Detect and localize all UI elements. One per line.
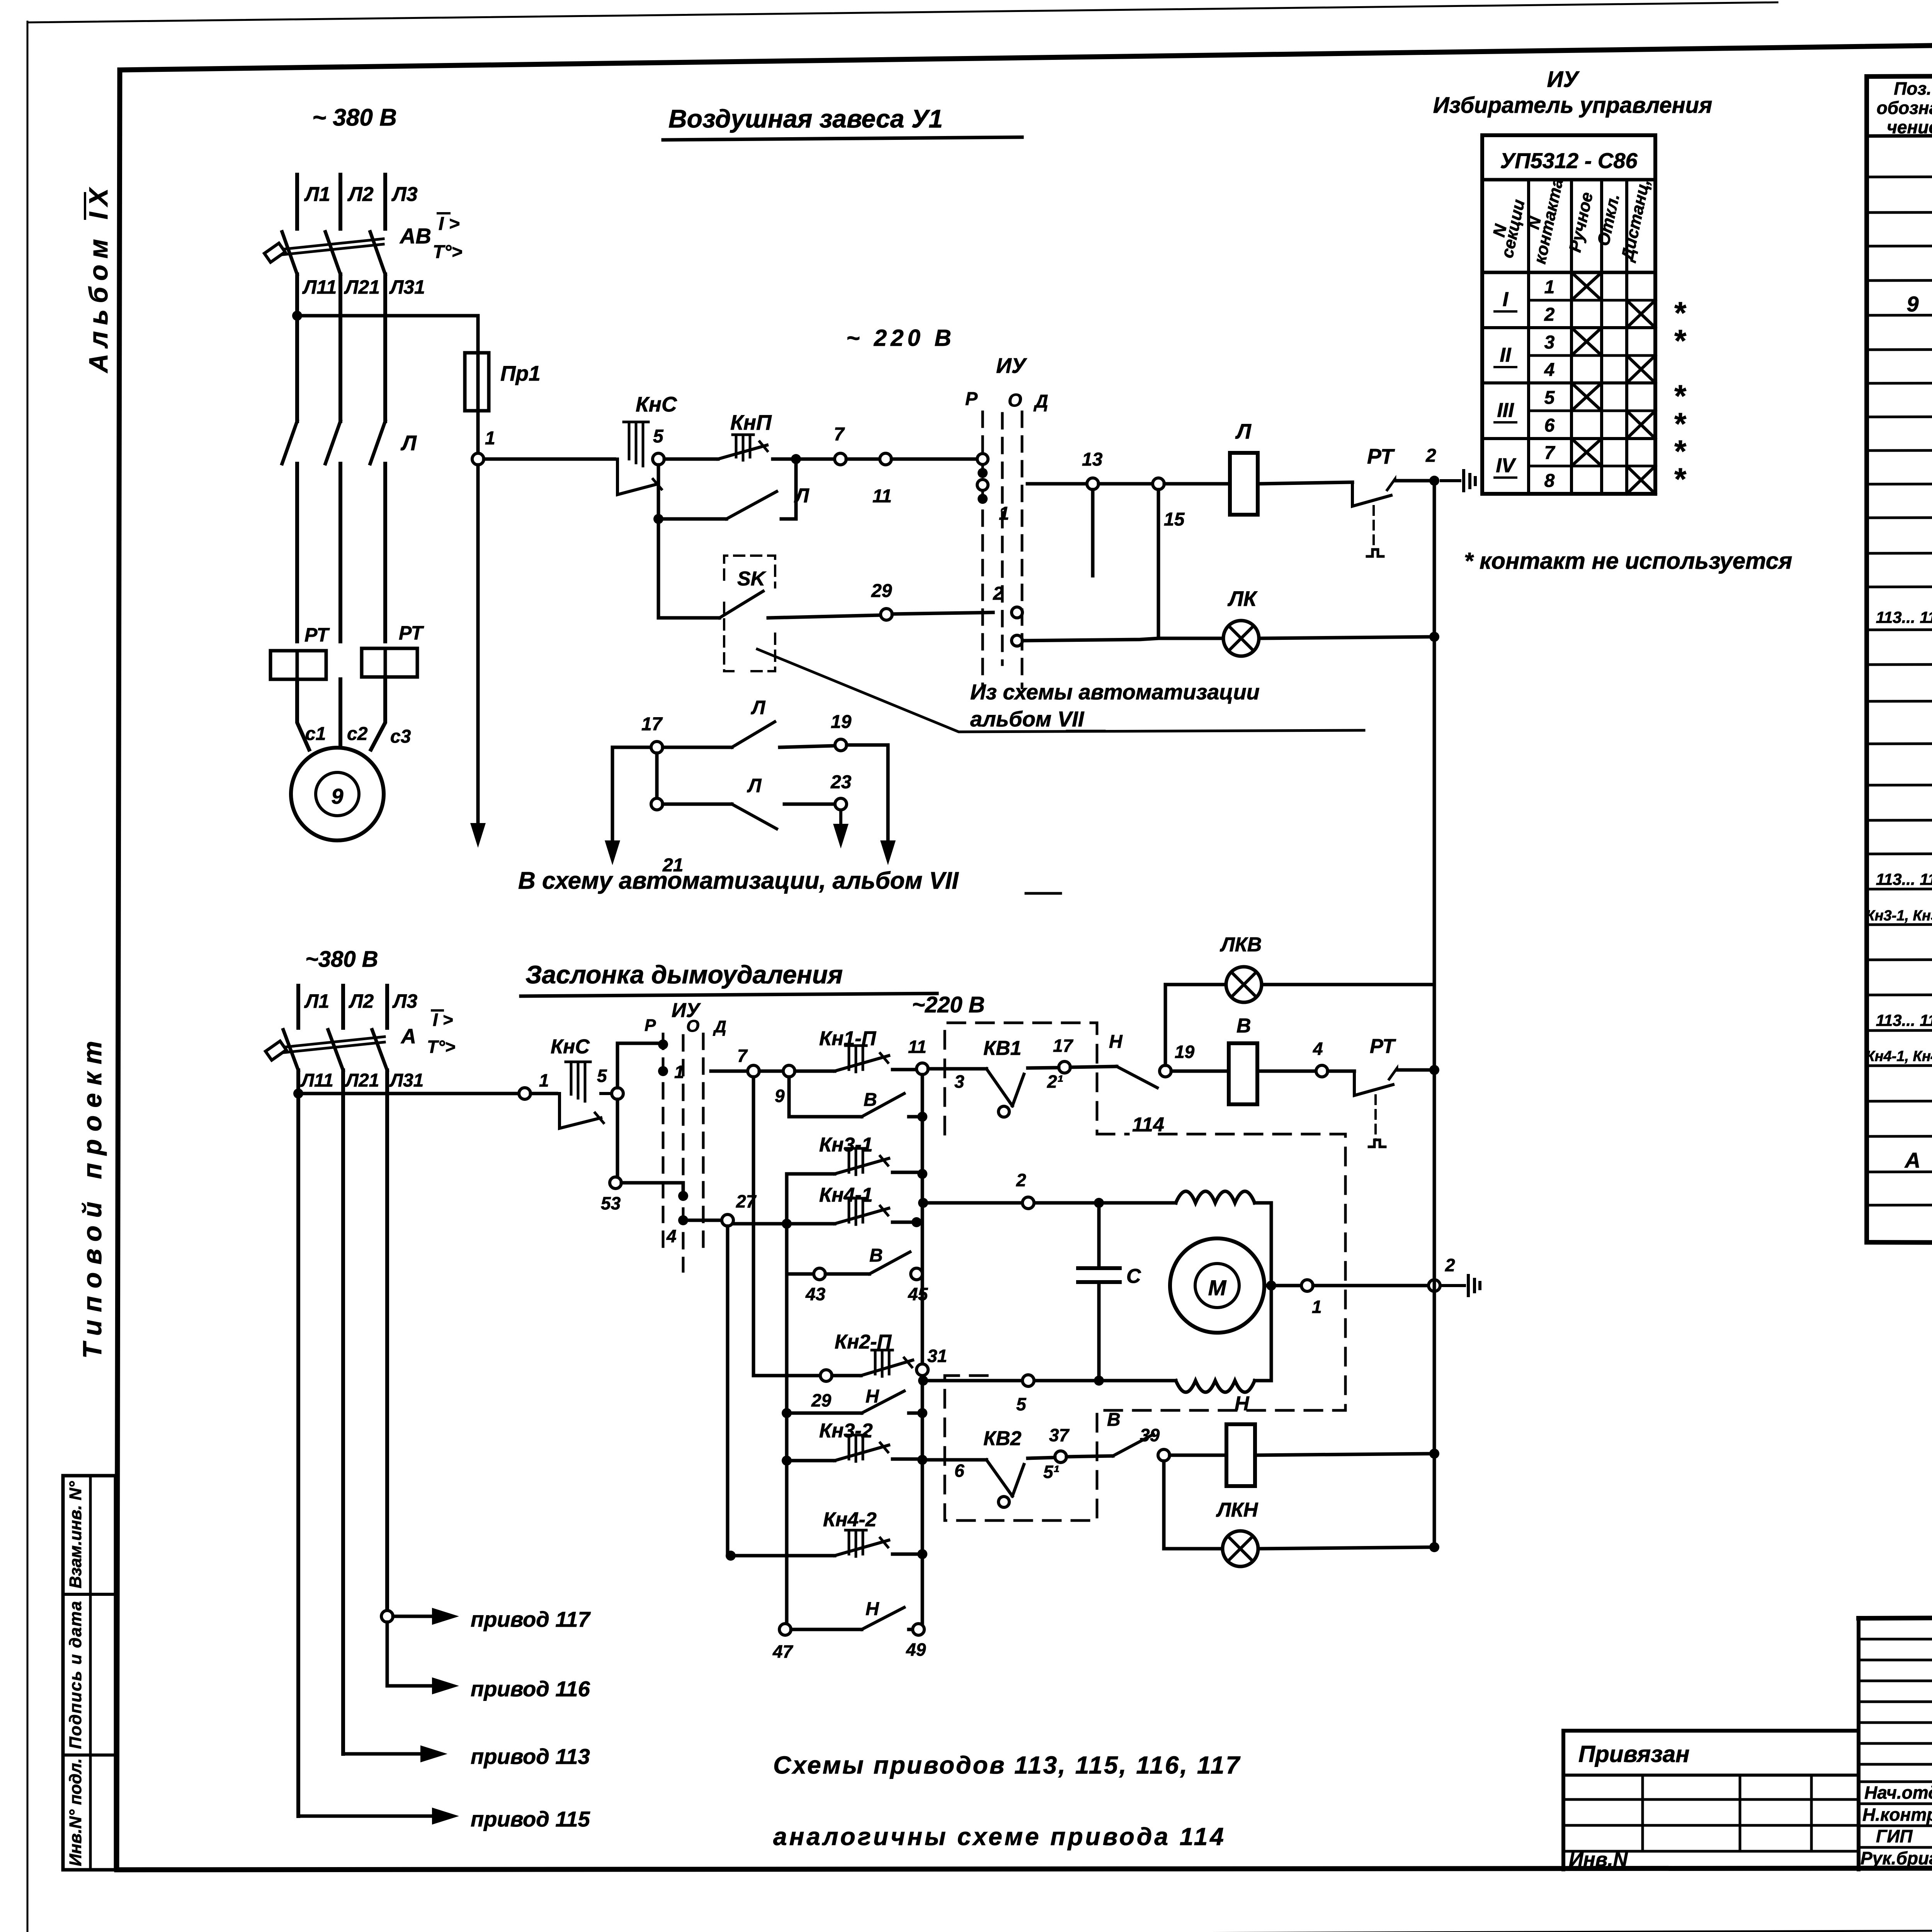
selector row line 1 partial (1529, 299, 1655, 302)
svg-text:1: 1 (1312, 1297, 1322, 1317)
svg-text:В: В (864, 1090, 877, 1110)
svg-text:13: 13 (1082, 449, 1103, 470)
signature table left line (1857, 1618, 1861, 1869)
main rung IU to node7 (711, 1070, 748, 1073)
breaker A blade 1 c2 (283, 1030, 298, 1070)
node 11 c2 (917, 1063, 928, 1075)
rail rows5-10 left (785, 1274, 789, 1629)
wire node13 to node15 (1099, 482, 1153, 486)
junction dot L1 c2 (293, 1088, 303, 1099)
node 17 c2 (1059, 1061, 1070, 1073)
svg-text:29: 29 (811, 1390, 832, 1410)
parts table row line 26 (1867, 1064, 1932, 1066)
selector table outer box (1482, 135, 1655, 494)
svg-text:РТ: РТ (399, 622, 424, 644)
button Kn1-P (795, 1070, 835, 1073)
svg-text:КнС: КнС (636, 392, 677, 416)
contactor L blade 1 (282, 421, 297, 464)
overline I c2 (432, 1009, 443, 1012)
wire H coil to rail (1255, 1454, 1434, 1455)
LKV rung right (1262, 983, 1434, 986)
selector X mark row 5 (1571, 383, 1602, 411)
wire rail to KV2 (922, 1458, 981, 1462)
row8 dot left (782, 1456, 792, 1466)
wire node7 node9 (759, 1070, 783, 1073)
selector X mark row 3 (1571, 328, 1602, 355)
parts table row line 19 (1867, 819, 1932, 820)
button Kn2-P (832, 1374, 861, 1378)
signature table row 9 (1859, 1803, 1932, 1805)
svg-text:5: 5 (653, 426, 664, 447)
node 27 (722, 1214, 733, 1226)
SK wire to node29 (768, 615, 881, 618)
button Kn4-1 (733, 1222, 835, 1226)
rail node11 down (921, 1075, 924, 1629)
svg-text:А: А (1904, 1148, 1920, 1172)
svg-text:обозна-: обозна- (1877, 98, 1932, 118)
wire node5 down to 53 (616, 1099, 619, 1177)
svg-text:2: 2 (1425, 446, 1436, 466)
svg-text:Избиратель управления: Избиратель управления (1433, 93, 1713, 118)
node 43 (814, 1268, 825, 1280)
svg-text:2: 2 (1544, 304, 1555, 325)
IU contact2 c1 lower (1012, 635, 1022, 646)
wire KV2 to 37 (1012, 1464, 1024, 1496)
arrowhead 23 down (839, 810, 842, 827)
node 45 (911, 1268, 922, 1280)
wire blade to 19 (780, 746, 835, 747)
dashed box KV1 (945, 1023, 1097, 1134)
svg-text:47: 47 (772, 1641, 794, 1662)
selfhold contact right (781, 459, 796, 519)
wire node1 down arrow (476, 465, 480, 823)
node 17 (651, 742, 663, 753)
svg-text:АВ: АВ (399, 224, 431, 248)
svg-text:Д: Д (1033, 391, 1048, 412)
wire c1 to motor (297, 679, 309, 750)
wire KnS to node5 c2 (601, 1092, 612, 1095)
selector header bottom line (1482, 271, 1655, 274)
svg-text:7: 7 (834, 424, 845, 445)
breaker AB crossbar (279, 239, 383, 255)
parts table row line 18 (1867, 784, 1932, 785)
svg-text:Н.контр.: Н.контр. (1862, 1804, 1932, 1825)
capacitor C vertical wire top (1097, 1203, 1101, 1268)
svg-text:В схему автоматизации,: В схему автоматизации, альбом VII (518, 867, 959, 894)
selector column line 3 (1600, 180, 1603, 494)
wire node11 right (928, 1067, 981, 1071)
svg-text:31: 31 (927, 1346, 947, 1366)
node 31 c2 (917, 1364, 928, 1376)
svg-text:Л: Л (1235, 419, 1252, 443)
rung to rail dot c2 (1429, 1065, 1439, 1075)
svg-text:Кн2-П: Кн2-П (835, 1331, 892, 1353)
thermal element RT1 box (270, 651, 326, 679)
selector X mark row 2 (1627, 300, 1655, 328)
svg-text:РТ: РТ (1370, 1035, 1396, 1058)
svg-text:11: 11 (872, 486, 892, 507)
parts table row line 4 (1867, 279, 1932, 281)
wire17 top (612, 746, 651, 749)
svg-text:2: 2 (1016, 1170, 1026, 1190)
svg-text:Пр1: Пр1 (500, 361, 541, 385)
svg-text:привод 117: привод 117 (471, 1607, 591, 1631)
wire 39 to H coil (1170, 1454, 1226, 1457)
overline I (438, 212, 449, 214)
motor top winding (1176, 1191, 1255, 1203)
svg-text:4: 4 (1313, 1039, 1323, 1059)
lamp LKV cross (1231, 972, 1256, 997)
signature table row 3 (1859, 1680, 1932, 1682)
privod 115 arrow (298, 1815, 433, 1818)
svg-text:Л21: Л21 (344, 276, 380, 298)
svg-text:37: 37 (1049, 1425, 1070, 1445)
svg-text:53: 53 (601, 1193, 621, 1213)
arrowhead 17 left (605, 840, 620, 865)
svg-text:Нач.отд.: Нач.отд. (1864, 1782, 1932, 1803)
privyazan row 3 (1563, 1824, 1859, 1827)
H coil rect (1226, 1424, 1255, 1486)
inner frame bottom (117, 1867, 1932, 1870)
svg-text:Л2: Л2 (349, 990, 374, 1012)
row2 B contact (789, 1115, 862, 1119)
IU c2 dashed O (682, 1036, 685, 1271)
svg-text:Л31: Л31 (389, 276, 425, 298)
svg-text:с3: с3 (390, 726, 411, 747)
parts table row line 24 (1867, 993, 1932, 995)
button Kn3-1 (787, 1172, 835, 1176)
svg-text:III: III (1497, 399, 1514, 422)
wire B coil to node4 (1257, 1070, 1316, 1073)
node 7 c2 (748, 1065, 759, 1077)
svg-text:45: 45 (908, 1284, 929, 1304)
svg-text:3: 3 (954, 1071, 964, 1092)
KnS symbol c2 (560, 1094, 601, 1128)
svg-text:~220 В: ~220 В (912, 992, 985, 1017)
svg-text:РТ: РТ (1367, 444, 1395, 468)
wire fuse to node1 (476, 411, 480, 459)
outer page border bottom (27, 1928, 1932, 1932)
wire rung2 to motor top (1099, 1201, 1176, 1205)
parts table row line 10 (1867, 483, 1932, 484)
IU c2 contact1 dots (658, 1039, 668, 1049)
lamp LK circle (1223, 621, 1259, 656)
wire KnS to node5 (657, 457, 658, 461)
svg-text:Типовой проект: Типовой проект (78, 1033, 107, 1359)
row5 blade (825, 1272, 869, 1276)
parts table row line 1 (1867, 175, 1932, 177)
svg-text:~380 В: ~380 В (305, 947, 378, 972)
parts table row line 14 (1867, 628, 1932, 630)
svg-text:6: 6 (1544, 415, 1555, 436)
parts table row line 27 (1867, 1100, 1932, 1101)
selfhold branch down from node5 (658, 465, 726, 519)
svg-text:Кн3-1, Кн3-2: Кн3-1, Кн3-2 (1866, 908, 1932, 924)
svg-text:Рук.бриг.: Рук.бриг. (1861, 1848, 1932, 1868)
wire coil to RT contact (1258, 482, 1352, 484)
sidebar stamp box (63, 1476, 116, 1870)
wire 17 down to 21 (655, 753, 659, 798)
svg-text:3: 3 (1544, 332, 1555, 353)
button KnP (718, 459, 769, 459)
IU contact1 c1 upper (977, 454, 988, 464)
breaker AB blade 3 (370, 232, 385, 274)
IU c1 dashed line R (981, 412, 984, 688)
svg-text:Л31: Л31 (389, 1070, 423, 1091)
motor 9 outer circle (291, 748, 384, 840)
breaker AB blade 2 (325, 232, 340, 274)
row10 H contact (791, 1628, 862, 1631)
svg-text:Л3: Л3 (392, 990, 417, 1012)
parts table top line (1867, 73, 1932, 77)
outer page border top (27, 2, 1777, 22)
signature table row 8 (1859, 1781, 1932, 1783)
B coil rect (1229, 1043, 1257, 1104)
svg-text:5: 5 (1544, 388, 1555, 408)
svg-text:Поз.: Поз. (1894, 78, 1931, 99)
SK contact blade (719, 591, 763, 618)
svg-text:II: II (1500, 344, 1512, 366)
node 2 ground c2 (1429, 1280, 1440, 1291)
svg-text:привод 113: привод 113 (471, 1744, 590, 1769)
node 21 (651, 798, 663, 810)
svg-text:7: 7 (1544, 443, 1556, 463)
selector row line 5 partial (1529, 410, 1655, 412)
row9 dot rail (917, 1549, 927, 1559)
B blade row8 (1066, 1456, 1113, 1457)
wire contact1 down and main rung c2 (662, 1070, 665, 1073)
selector group line 4 (1482, 381, 1655, 384)
svg-text:Кн3-2: Кн3-2 (819, 1420, 873, 1442)
svg-text:ГИП: ГИП (1876, 1826, 1913, 1846)
row8 rail dot (1429, 1449, 1439, 1459)
wire node15 down (1157, 490, 1160, 638)
fuse Pr1 through-wire (476, 353, 480, 411)
fuse Pr1 (465, 353, 489, 411)
node 53 (610, 1177, 621, 1189)
wire 19 to B coil (1171, 1070, 1229, 1073)
selector row line 3 partial (1529, 354, 1655, 357)
svg-text:В: В (1107, 1410, 1121, 1430)
circuit 1 title underline (663, 137, 1022, 140)
svg-text:Л1: Л1 (304, 990, 329, 1012)
svg-text:Схемы приводов 113, 115: Схемы приводов 113, 115, 116, 117 (773, 1751, 1241, 1779)
parts table header underline (1867, 134, 1932, 136)
parts table row line 20 (1867, 852, 1932, 854)
lamp LK cross (1229, 626, 1253, 651)
KV2 contact (981, 1460, 1004, 1496)
svg-text:Кн3-1: Кн3-1 (819, 1134, 873, 1156)
signature table row 11 (1859, 1846, 1932, 1849)
motor M outer circle (1170, 1238, 1264, 1333)
privyazan col 1 (1641, 1775, 1644, 1851)
svg-text:ЛК: ЛК (1227, 587, 1258, 611)
row5 B contact (787, 1272, 814, 1276)
svg-text:КВ1: КВ1 (983, 1037, 1021, 1060)
signature table row 2 (1859, 1659, 1932, 1662)
selector column line 2 (1570, 180, 1573, 494)
svg-text:1: 1 (999, 503, 1009, 524)
RT contact c1 (1352, 482, 1391, 506)
node 29 circuit1 (881, 609, 892, 620)
svg-text:Н: Н (866, 1386, 879, 1407)
parts table row line 3 (1867, 245, 1932, 246)
svg-text:Н: Н (866, 1599, 879, 1619)
parts table row line 23 (1867, 958, 1932, 960)
junction dot L1 (292, 311, 302, 321)
node 37 (1055, 1451, 1066, 1463)
SK branch wire down (658, 519, 719, 618)
parts table row line 12 (1867, 552, 1932, 553)
svg-text:19: 19 (1175, 1042, 1195, 1062)
svg-text:2: 2 (1445, 1255, 1455, 1275)
svg-text:I >: I > (439, 214, 460, 234)
node 5 c2 (612, 1088, 623, 1099)
breaker A blade 2 c2 (328, 1030, 343, 1070)
phase 2 line L3 stub (385, 986, 389, 1028)
svg-text:1: 1 (539, 1070, 549, 1090)
LKV rung left (1165, 983, 1226, 986)
note underline VII (1067, 730, 1104, 733)
wire node7 to node11 (846, 457, 880, 461)
RT contact c2 (1328, 1070, 1354, 1073)
signature table row 5 (1859, 1721, 1932, 1724)
node 47 (779, 1624, 791, 1635)
arrowhead node1 down (470, 823, 486, 848)
LKN rail end dot (1429, 1542, 1439, 1552)
svg-text:Воздушная завеса У1: Воздушная завеса У1 (668, 104, 943, 133)
phase line L1 stub (295, 175, 299, 229)
node 49 (913, 1624, 924, 1635)
wire 19 to corner (847, 745, 888, 840)
wire KnP to node7 (773, 457, 835, 461)
rail 27 down (726, 1226, 730, 1556)
parts table row line 25 (1867, 1029, 1932, 1031)
svg-text:19: 19 (831, 712, 852, 732)
wire lamp branch (1158, 637, 1223, 640)
thermal element RT2 box (362, 648, 417, 677)
breaker A crossbar c2 (280, 1037, 384, 1053)
svg-text:Заслонка дымоудаления: Заслонка дымоудаления (526, 960, 843, 989)
svg-text:А: А (400, 1025, 416, 1048)
sidebar stamp divider 2 (63, 1753, 116, 1757)
node 7 circuit1 (835, 453, 846, 465)
selector X mark row 4 (1627, 355, 1655, 383)
privyazan table outline (1563, 1731, 1859, 1869)
contactor L blade 3 (370, 421, 385, 464)
svg-text:113... 117: 113... 117 (1876, 1011, 1932, 1029)
node 4 c2 (1316, 1065, 1328, 1077)
IU contact1 c1 lower (977, 480, 988, 490)
motor M inner circle (1195, 1264, 1239, 1308)
node 19 c2 (1160, 1065, 1171, 1077)
sidebar underline IX (84, 193, 86, 219)
row8 dot rail (917, 1455, 927, 1465)
capacitor C plates (1078, 1268, 1120, 1282)
LKN rung right (1258, 1547, 1434, 1549)
svg-text:Кн4-2: Кн4-2 (823, 1509, 877, 1531)
svg-text:I: I (1503, 288, 1509, 311)
svg-text:КВ2: КВ2 (983, 1427, 1022, 1450)
rung 5 wire (923, 1379, 1093, 1383)
signature table row 7 (1859, 1763, 1932, 1766)
svg-text:О: О (686, 1017, 699, 1036)
circuit 2 title underline (521, 993, 937, 996)
parts table row line 6 (1867, 348, 1932, 350)
outer page border left (27, 22, 29, 1932)
svg-text:Л: Л (794, 485, 810, 507)
signature table row 6 (1859, 1742, 1932, 1745)
svg-text:39: 39 (1140, 1425, 1160, 1445)
privod 117 arrow (393, 1615, 433, 1618)
button Kn3-2 (787, 1459, 835, 1463)
sidebar stamp divider vertical (89, 1476, 92, 1870)
svg-text:1: 1 (485, 428, 495, 449)
svg-text:Л1: Л1 (304, 183, 330, 206)
svg-text:Л11: Л11 (300, 1070, 333, 1091)
RT release dashed c2 (1374, 1095, 1377, 1140)
svg-text:Подпись и дата: Подпись и дата (66, 1600, 85, 1749)
contactor L blade 2 (325, 421, 340, 464)
selector X mark row 1 (1571, 272, 1602, 300)
selector X mark row 6 (1627, 411, 1655, 439)
selfhold L contact blade (726, 492, 777, 519)
riser node5 to IU c2 (617, 1043, 662, 1088)
svg-text:с2: с2 (347, 724, 368, 744)
svg-text:Л: Л (400, 431, 417, 455)
selector row line 7 partial (1529, 465, 1655, 468)
phase line L2 stub (338, 175, 342, 229)
svg-text:2: 2 (993, 583, 1003, 604)
parts table row line 7 (1867, 382, 1932, 383)
svg-text:Т°>: Т°> (433, 242, 463, 262)
wire L3 down (383, 274, 387, 421)
H blade top rung (1070, 1066, 1117, 1067)
wire blade to 23 (784, 804, 785, 811)
node 13 circuit1 (1087, 478, 1099, 490)
common rail c2 (1433, 985, 1436, 1547)
svg-text:Кн4-1: Кн4-1 (819, 1184, 873, 1206)
KnS symbol c1 (617, 459, 657, 495)
inner frame top (120, 35, 1932, 70)
node 1 circuit1 (472, 453, 484, 465)
button KnS c1 (484, 457, 614, 461)
privod 117 node (381, 1611, 393, 1622)
row3 junction dot right (917, 1169, 927, 1179)
privyazan col 3 (1810, 1775, 1813, 1851)
svg-text:аналогичны схеме привода: аналогичны схеме привода 114 (773, 1823, 1226, 1850)
svg-text:Из схемы автоматизации: Из схемы автоматизации (970, 680, 1260, 704)
wire 19 up (1164, 985, 1167, 1065)
motor winding right link (1255, 1201, 1271, 1205)
svg-text:5: 5 (597, 1066, 607, 1086)
svg-text:23: 23 (830, 772, 852, 793)
wire c3 to motor (371, 677, 385, 750)
rail rows3-5 left (785, 1174, 789, 1274)
svg-text:В: В (869, 1245, 883, 1266)
svg-text:Д: Д (713, 1017, 726, 1036)
wire node11 to IU (891, 457, 980, 461)
rail rung2 left dot (918, 1198, 928, 1208)
node 15 circuit1 (1153, 478, 1164, 490)
svg-text:привод 115: привод 115 (471, 1807, 590, 1831)
node 19 c1 (835, 739, 847, 751)
svg-text:11: 11 (908, 1037, 927, 1057)
row7 H contact (787, 1412, 862, 1415)
title block top line (1859, 1615, 1932, 1618)
stub node15 area to lamp branch (1141, 484, 1142, 639)
svg-text:* контакт не используется: * контакт не используется (1464, 548, 1792, 574)
